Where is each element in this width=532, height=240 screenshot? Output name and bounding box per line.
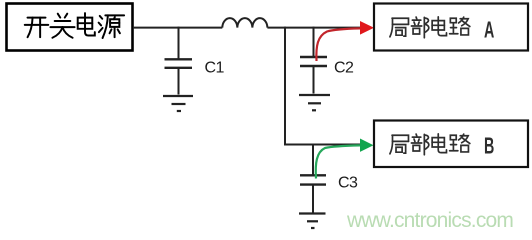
label C1 <box>205 59 225 76</box>
wire: C2 branch vertical <box>313 27 315 57</box>
svg-text:B: B <box>484 134 494 159</box>
capacitor C3 <box>300 175 326 213</box>
inductor L1 <box>222 18 267 27</box>
box: local circuit A <box>374 4 528 51</box>
wire: main horizontal from power supply to inductor <box>133 27 222 29</box>
svg-text:C3: C3 <box>338 175 358 192</box>
wire: C3 branch vertical <box>312 144 314 176</box>
arrow (red) from C2 to circuit A <box>316 21 374 61</box>
ground under C1 <box>163 96 193 111</box>
watermark www.cntronics.com <box>346 209 513 232</box>
box: switching power supply 开关电源 <box>7 4 133 51</box>
box: local circuit B <box>374 121 528 168</box>
wire: from inductor to circuit A arrowhead <box>267 27 360 29</box>
label C2 <box>334 59 354 76</box>
capacitor C1 <box>165 59 193 94</box>
ground under C3 <box>299 214 326 229</box>
arrow (green) from C3 to circuit B <box>316 139 374 179</box>
wire: branch down to circuit B feed <box>284 27 286 145</box>
capacitor C2 <box>300 57 327 94</box>
svg-text:C2: C2 <box>334 59 354 76</box>
wire: horizontal feed to circuit B arrowhead <box>284 144 360 146</box>
svg-text:www.cntronics.com: www.cntronics.com <box>346 209 513 232</box>
label C3 <box>338 175 358 192</box>
ground under C2 <box>299 95 330 110</box>
svg-text:A: A <box>484 18 494 43</box>
wire: C1 branch vertical <box>178 27 180 59</box>
svg-text:C1: C1 <box>205 59 225 76</box>
